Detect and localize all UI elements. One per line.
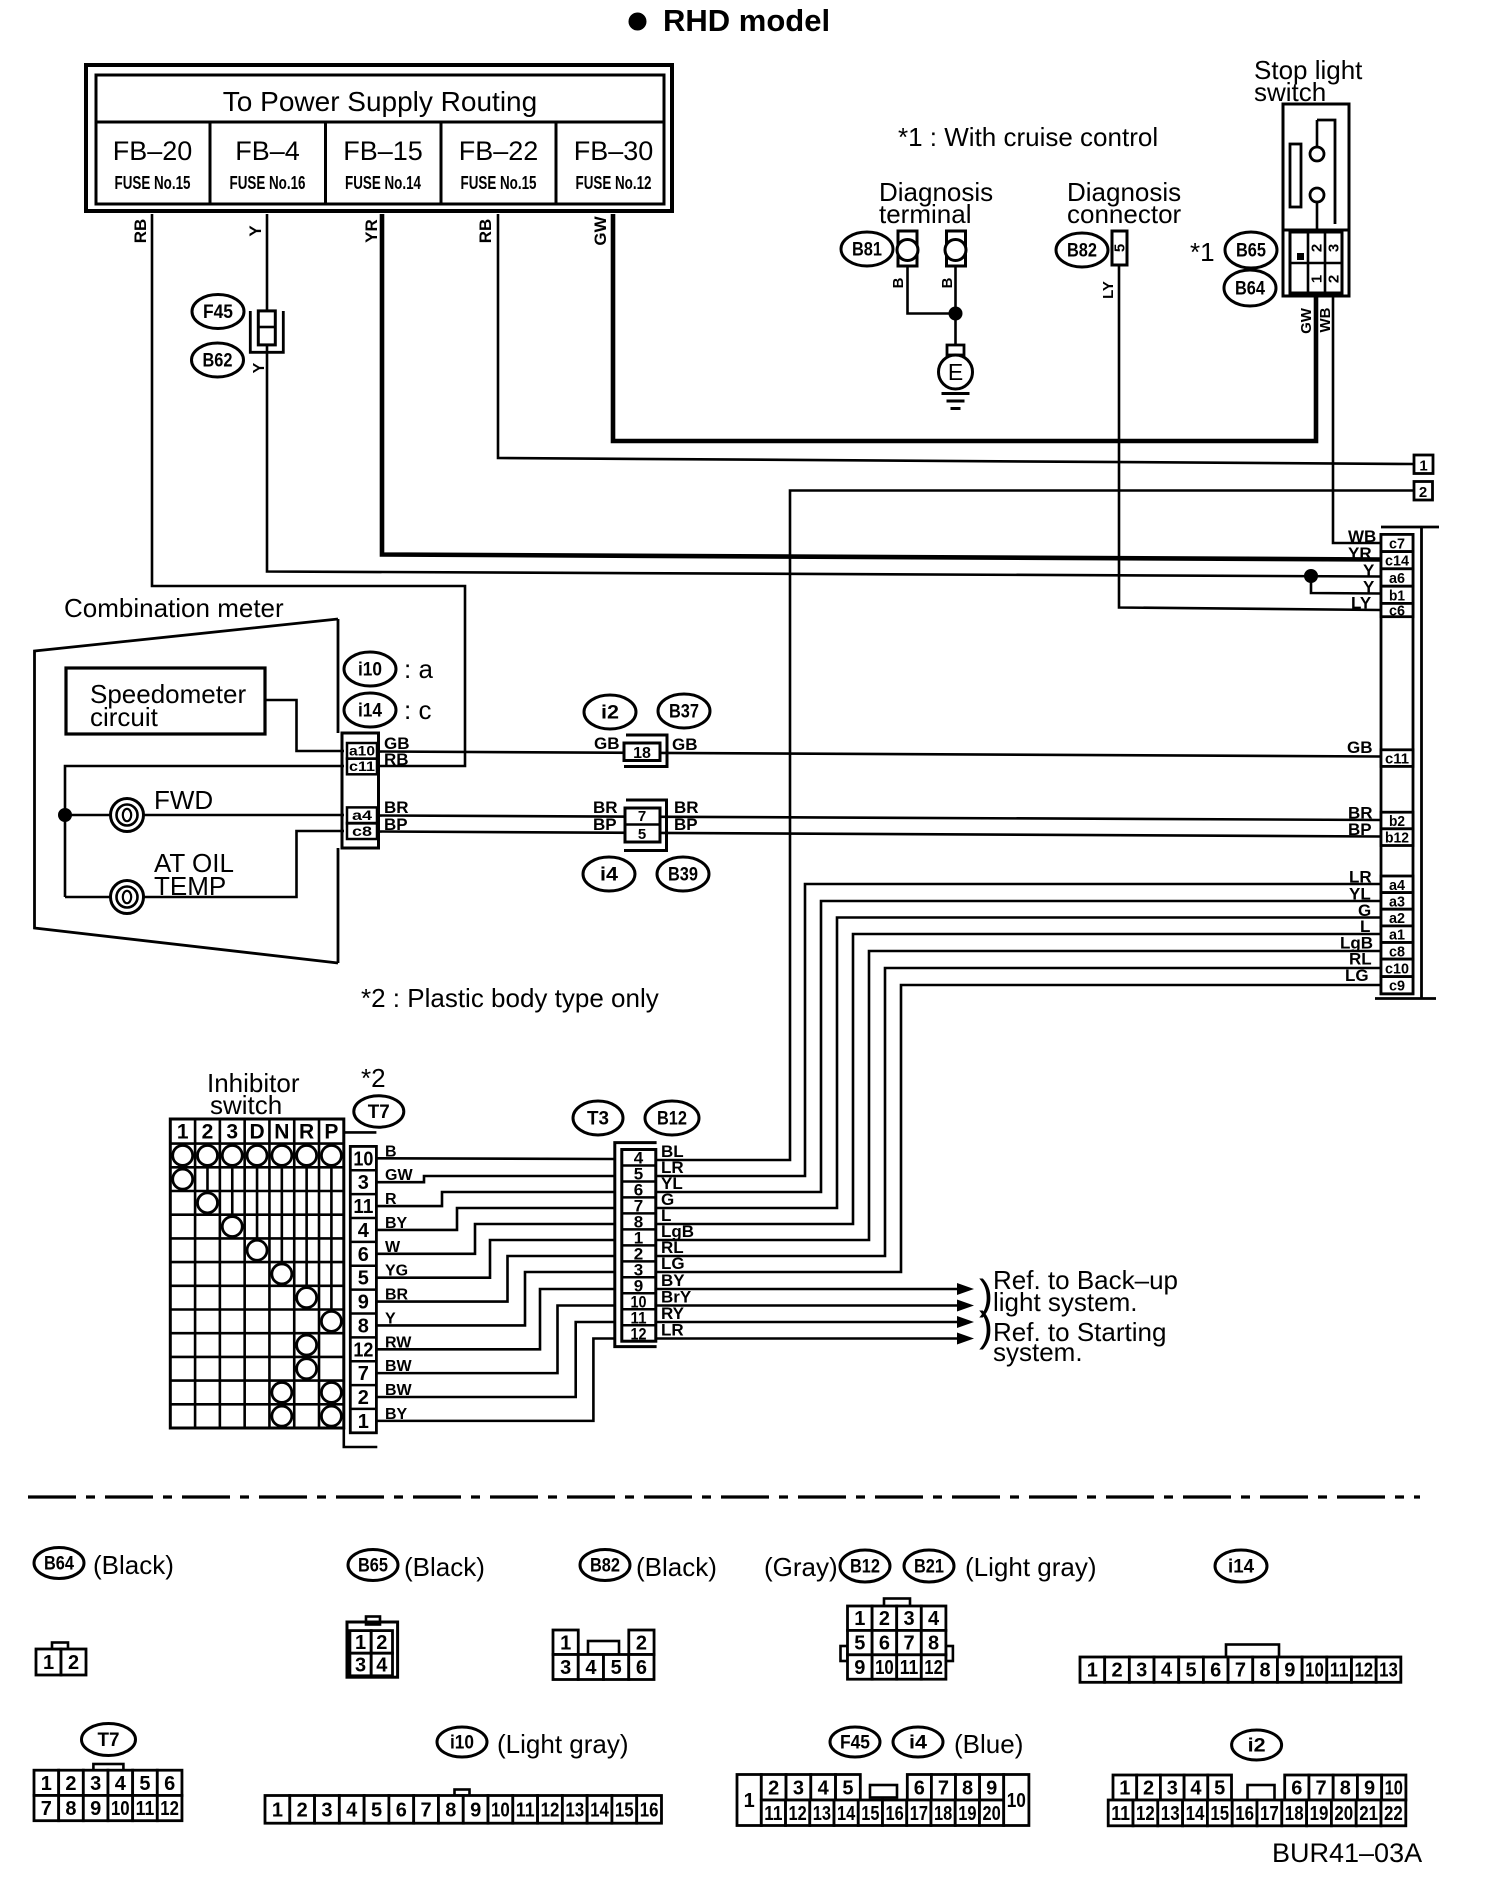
connector oval i4 (bottom) <box>893 1727 943 1757</box>
svg-text:Y: Y <box>251 362 268 373</box>
wire label LR <box>661 1158 684 1177</box>
svg-text:F45: F45 <box>203 302 233 323</box>
wire inhibitor pin 11 to T3/B12 <box>376 1192 614 1206</box>
svg-text:6: 6 <box>1210 1660 1221 1682</box>
label (Light gray) <box>965 1552 1097 1582</box>
svg-text:c6: c6 <box>1389 603 1405 620</box>
svg-text:(Gray): (Gray) <box>764 1552 838 1582</box>
svg-text:a6: a6 <box>1389 570 1405 587</box>
svg-text:16: 16 <box>886 1803 904 1825</box>
svg-text:3: 3 <box>1167 1778 1178 1800</box>
svg-text:FUSE No.12: FUSE No.12 <box>576 173 652 193</box>
svg-text:13: 13 <box>813 1803 831 1825</box>
svg-text:12: 12 <box>1354 1660 1373 1682</box>
svg-text:6: 6 <box>879 1633 890 1655</box>
power supply routing box <box>86 65 672 211</box>
svg-text:10: 10 <box>353 1148 373 1170</box>
svg-text:R: R <box>299 1121 314 1144</box>
diagnosis connector pin 5 <box>1112 231 1129 265</box>
svg-text:2: 2 <box>202 1121 214 1144</box>
svg-text:B82: B82 <box>1067 241 1097 262</box>
svg-text:5: 5 <box>842 1777 853 1799</box>
svg-text:GB: GB <box>594 734 620 753</box>
svg-text:FUSE No.15: FUSE No.15 <box>115 173 191 193</box>
wire label LgB <box>661 1222 694 1241</box>
wire label Y below fusible link <box>251 362 268 373</box>
svg-text:c14: c14 <box>1385 553 1410 570</box>
wire label Y <box>385 1310 396 1327</box>
wire label BP right <box>674 815 698 834</box>
svg-text:c9: c9 <box>1389 978 1405 995</box>
wire label WB <box>1348 527 1376 546</box>
svg-text:WB: WB <box>1317 307 1334 332</box>
svg-text:2: 2 <box>1309 244 1326 252</box>
svg-text:B12: B12 <box>657 1109 687 1130</box>
svg-text:LR: LR <box>661 1321 684 1340</box>
connector oval T3 <box>573 1101 623 1135</box>
connector pins 7/5 box <box>624 800 667 851</box>
svg-text:10: 10 <box>1007 1790 1026 1812</box>
svg-text:1: 1 <box>355 1632 366 1654</box>
wire inhibitor pin 1 to T3/B12 <box>376 1339 614 1421</box>
wire label LY <box>1351 594 1372 613</box>
svg-text:12: 12 <box>353 1339 373 1361</box>
connector oval T7 (bottom) <box>82 1724 136 1756</box>
speedometer circuit box <box>66 668 265 734</box>
connector oval i2 (bottom) <box>1232 1730 1282 1760</box>
svg-text:2: 2 <box>1326 275 1343 283</box>
wire B12 pin 5 to strip <box>656 884 1381 1176</box>
separator dashed line <box>28 1495 1420 1498</box>
svg-text:17: 17 <box>1260 1803 1279 1825</box>
svg-text:1: 1 <box>41 1773 52 1795</box>
svg-text:2: 2 <box>358 1387 369 1409</box>
svg-text:2: 2 <box>68 1652 79 1674</box>
svg-text:1: 1 <box>272 1799 283 1821</box>
svg-text:T3: T3 <box>587 1109 609 1130</box>
svg-text:10: 10 <box>875 1657 894 1679</box>
svg-text:4: 4 <box>346 1799 358 1821</box>
label stop light switch <box>1254 55 1363 107</box>
svg-text:15: 15 <box>1210 1803 1229 1825</box>
inhibitor pin strip T7 <box>350 1146 376 1432</box>
wire label GB <box>1347 738 1373 757</box>
svg-text:1: 1 <box>1119 1778 1130 1800</box>
wire label BrY <box>661 1288 692 1307</box>
svg-text:18: 18 <box>934 1803 952 1825</box>
svg-text:2: 2 <box>636 1632 647 1654</box>
wire label BY <box>385 1215 408 1232</box>
wire YR from FB-15 to c14 (thick) <box>382 214 1381 560</box>
wire label RB <box>131 219 150 244</box>
svg-text:22: 22 <box>1384 1803 1403 1825</box>
connector oval B64 <box>1224 270 1276 306</box>
wire label RY <box>661 1304 685 1323</box>
svg-text:B12: B12 <box>850 1557 880 1578</box>
svg-text:11: 11 <box>516 1799 535 1821</box>
svg-text:BP: BP <box>674 815 698 834</box>
wire label BP left <box>593 815 617 834</box>
label (Gray) <box>764 1552 838 1582</box>
svg-text:20: 20 <box>982 1803 1000 1825</box>
wire to node 2 <box>656 491 1414 1161</box>
wire label GW <box>1298 307 1315 334</box>
connector oval B39 <box>657 857 709 891</box>
svg-text:3: 3 <box>1326 244 1343 252</box>
svg-text:T7: T7 <box>98 1730 120 1751</box>
wire label B <box>939 277 956 288</box>
fuse cell FB-30 <box>556 122 653 204</box>
wire label YG <box>385 1263 408 1280</box>
fuse cell FB-22 <box>441 122 538 204</box>
fuse cell FB-20 <box>113 136 193 193</box>
wire label BP <box>384 815 408 834</box>
wire B12 pin 12 to ref arrow <box>656 1333 974 1345</box>
svg-text:6: 6 <box>396 1799 407 1821</box>
wire label W <box>385 1239 401 1256</box>
wire label YL <box>661 1174 683 1193</box>
wire inhibitor pin 9 to T3/B12 <box>376 1256 614 1302</box>
svg-text:13: 13 <box>1379 1660 1398 1682</box>
svg-text:3: 3 <box>560 1657 571 1679</box>
inhibitor switch grid <box>170 1119 343 1428</box>
label combination meter <box>64 593 284 623</box>
connector oval T7 <box>354 1096 404 1127</box>
connector oval F45 <box>192 295 244 329</box>
svg-text:(Black): (Black) <box>404 1552 485 1582</box>
svg-text:15: 15 <box>861 1803 879 1825</box>
svg-text:RHD model: RHD model <box>663 3 830 38</box>
wire RB from FB-22 to node 1 <box>498 214 1414 464</box>
svg-text:6: 6 <box>914 1777 925 1799</box>
connector oval i10 (bottom) <box>437 1727 487 1757</box>
wire inhibitor pin 12 to T3/B12 <box>376 1289 614 1349</box>
svg-text:5: 5 <box>1112 244 1129 252</box>
connector oval B12 <box>645 1101 699 1135</box>
connector oval B12 (bottom) <box>840 1550 890 1582</box>
svg-text:11: 11 <box>900 1657 919 1679</box>
diagnosis terminal pin 2 <box>945 231 966 266</box>
connector oval i4 <box>583 857 635 891</box>
svg-text:6: 6 <box>1291 1778 1302 1800</box>
svg-text:1: 1 <box>854 1608 865 1630</box>
svg-text:circuit: circuit <box>90 702 159 732</box>
stop light switch connector pins <box>1290 232 1343 293</box>
wire label YR <box>362 219 381 243</box>
wire label LR <box>661 1321 684 1340</box>
svg-text:2: 2 <box>65 1773 76 1795</box>
svg-text:2: 2 <box>1143 1778 1154 1800</box>
svg-text:RB: RB <box>131 219 150 244</box>
label BUR41-03A <box>1272 1838 1422 1868</box>
wire label G <box>1358 901 1371 920</box>
wire B12 pin 10 to ref arrow <box>656 1300 974 1312</box>
svg-text:5: 5 <box>638 826 646 843</box>
svg-text:a2: a2 <box>1389 910 1405 927</box>
svg-text:7: 7 <box>938 1777 949 1799</box>
svg-text:FUSE No.14: FUSE No.14 <box>345 173 421 193</box>
wire B12 pin 3 to strip <box>656 985 1381 1272</box>
svg-text:To Power Supply Routing: To Power Supply Routing <box>223 86 537 117</box>
svg-text:8: 8 <box>1340 1778 1351 1800</box>
svg-text:c8: c8 <box>352 823 372 839</box>
svg-text:10: 10 <box>1385 1778 1403 1800</box>
svg-text:2: 2 <box>1419 484 1427 501</box>
svg-text:LY: LY <box>1100 281 1117 299</box>
wire label GB <box>384 734 410 753</box>
label diagnosis connector <box>1067 177 1182 229</box>
svg-text:8: 8 <box>928 1633 939 1655</box>
svg-text:1: 1 <box>1309 275 1326 283</box>
wire label BY <box>661 1271 685 1290</box>
svg-text:4: 4 <box>376 1655 388 1677</box>
svg-text:1: 1 <box>177 1121 189 1144</box>
svg-text:13: 13 <box>565 1799 584 1821</box>
wire label BR right <box>674 798 699 817</box>
svg-text:FUSE No.16: FUSE No.16 <box>230 173 306 193</box>
svg-text:19: 19 <box>958 1803 976 1825</box>
connector oval B65 <box>1225 232 1277 268</box>
svg-text:19: 19 <box>1310 1803 1329 1825</box>
svg-text:20: 20 <box>1334 1803 1353 1825</box>
svg-text:8: 8 <box>1260 1660 1271 1682</box>
wire label BR <box>384 798 409 817</box>
connector oval B62 <box>192 343 244 377</box>
connector oval B82 (bottom) <box>580 1550 630 1581</box>
svg-text:3: 3 <box>355 1655 366 1677</box>
wire label R <box>385 1191 397 1208</box>
svg-text:): ) <box>979 1303 993 1350</box>
connector pinout B82 <box>553 1630 654 1680</box>
stop light switch box <box>1283 104 1349 296</box>
svg-text:i2: i2 <box>601 703 619 724</box>
svg-text:(Black): (Black) <box>93 1550 174 1580</box>
wire label BW <box>385 1358 413 1375</box>
svg-text:7: 7 <box>41 1798 52 1820</box>
svg-text:12: 12 <box>541 1799 560 1821</box>
svg-text:14: 14 <box>837 1803 856 1825</box>
fuse cell FB-15 <box>326 122 423 204</box>
connector pinout i10 <box>265 1790 661 1824</box>
connector pinout i2 <box>1108 1775 1406 1826</box>
svg-text:1: 1 <box>43 1652 54 1674</box>
svg-text:FB–22: FB–22 <box>459 136 539 166</box>
wire label RL <box>1349 950 1372 969</box>
svg-text:4: 4 <box>1190 1778 1202 1800</box>
wire GB row <box>379 752 1382 757</box>
svg-text:i14: i14 <box>1228 1557 1254 1578</box>
svg-text:FWD: FWD <box>154 785 213 815</box>
wire label RL <box>661 1238 684 1257</box>
svg-text:9: 9 <box>1284 1660 1295 1682</box>
wire label BR <box>385 1287 409 1304</box>
svg-text:: a: : a <box>404 654 433 684</box>
svg-text:10: 10 <box>111 1798 130 1820</box>
label diagnosis terminal <box>879 177 993 229</box>
wire label Y <box>1363 561 1375 580</box>
svg-text:c11: c11 <box>349 758 375 774</box>
svg-text:(Light gray): (Light gray) <box>965 1552 1097 1582</box>
wire inhibitor pin 8 to T3/B12 <box>376 1272 614 1325</box>
note *2 marker <box>361 1063 386 1093</box>
svg-text:RB: RB <box>476 219 495 244</box>
svg-text:T7: T7 <box>368 1102 390 1123</box>
wire GW from FB-30 to stop light switch (thick) <box>613 214 1316 441</box>
wire RB from FB-20 to combination meter c11 <box>152 214 465 766</box>
label (Light gray) <box>497 1729 629 1759</box>
svg-text:i4: i4 <box>600 865 618 886</box>
wire label B <box>890 277 907 288</box>
wire label Y <box>246 225 265 237</box>
label (Black) <box>636 1552 717 1582</box>
svg-text:8: 8 <box>445 1799 456 1821</box>
svg-text:11: 11 <box>136 1798 155 1820</box>
svg-text:B37: B37 <box>669 702 699 723</box>
gauge FWD <box>111 785 214 832</box>
svg-text:FB–15: FB–15 <box>343 136 423 166</box>
wire label G <box>661 1190 674 1209</box>
svg-text:12: 12 <box>924 1657 943 1679</box>
svg-text:11: 11 <box>1330 1660 1349 1682</box>
label ref to back-up light system <box>979 1265 1178 1318</box>
connector pinout B65 <box>347 1617 398 1678</box>
node dot FWD branch <box>60 810 71 821</box>
svg-text:18: 18 <box>633 745 651 762</box>
svg-text:11: 11 <box>1111 1803 1130 1825</box>
svg-text:12: 12 <box>160 1798 179 1820</box>
wire FWD row <box>65 814 344 817</box>
wire label B <box>385 1143 397 1160</box>
wire label BR left <box>593 798 618 817</box>
wire diagnosis terminal to ground <box>908 266 956 345</box>
note *1 with cruise control <box>898 122 1158 152</box>
svg-text:B: B <box>890 277 907 288</box>
svg-text:2: 2 <box>768 1777 779 1799</box>
wire label L <box>661 1206 671 1225</box>
connector pinout B64 <box>36 1643 86 1676</box>
svg-text:13: 13 <box>1161 1803 1180 1825</box>
connector oval B81 <box>841 232 893 266</box>
svg-text:1: 1 <box>744 1790 755 1812</box>
wire label RW <box>385 1334 412 1351</box>
wire label RB <box>476 219 495 244</box>
svg-text:9: 9 <box>986 1777 997 1799</box>
node 2 box <box>1414 482 1433 502</box>
wire label GW <box>591 215 610 245</box>
inhibitor connector bracket lines <box>344 1132 378 1447</box>
wire label GB right <box>672 735 698 754</box>
connector oval i2 <box>584 695 636 729</box>
wire label LgB <box>1340 934 1373 953</box>
svg-text:3: 3 <box>321 1799 332 1821</box>
svg-text:*1 : With cruise control: *1 : With cruise control <box>898 122 1158 152</box>
wire inhibitor pin 5 to T3/B12 <box>376 1240 614 1278</box>
wire label LG <box>661 1254 685 1273</box>
connector pinout F45/i4 <box>737 1775 1029 1826</box>
svg-text:a10: a10 <box>349 743 375 759</box>
svg-text:7: 7 <box>358 1363 369 1385</box>
svg-text:4: 4 <box>585 1657 597 1679</box>
label ref to starting system <box>979 1303 1166 1367</box>
svg-text:18: 18 <box>1285 1803 1304 1825</box>
svg-text:5: 5 <box>139 1773 150 1795</box>
combination meter connector i10/i14 <box>342 733 379 848</box>
svg-text:GW: GW <box>591 215 610 245</box>
svg-text:BUR41–03A: BUR41–03A <box>1272 1838 1422 1868</box>
svg-text:3: 3 <box>793 1777 804 1799</box>
svg-text:12: 12 <box>1136 1803 1155 1825</box>
svg-text:LY: LY <box>1351 594 1372 613</box>
label (Black) <box>404 1552 485 1582</box>
svg-text:5: 5 <box>358 1268 369 1290</box>
svg-text:15: 15 <box>615 1799 634 1821</box>
svg-text:B65: B65 <box>1236 241 1266 262</box>
svg-text:4: 4 <box>358 1220 370 1242</box>
connector oval F45 (bottom) <box>830 1727 880 1757</box>
svg-text:c7: c7 <box>1389 536 1405 553</box>
svg-text:E: E <box>948 359 963 385</box>
svg-text:7: 7 <box>903 1633 914 1655</box>
svg-text:8: 8 <box>962 1777 973 1799</box>
svg-text:2: 2 <box>297 1799 308 1821</box>
svg-text:3: 3 <box>226 1121 238 1144</box>
svg-text:FB–30: FB–30 <box>574 136 654 166</box>
svg-text:B64: B64 <box>44 1554 74 1575</box>
svg-text:9: 9 <box>358 1292 369 1314</box>
connector oval B64 (bottom) <box>34 1548 84 1579</box>
svg-text:B64: B64 <box>1235 279 1265 300</box>
gauge AT OIL TEMP <box>111 848 234 914</box>
svg-text:3: 3 <box>1136 1660 1147 1682</box>
svg-text:4: 4 <box>928 1608 940 1630</box>
wire label Y <box>1363 578 1375 597</box>
wire B12 pin 8 to strip <box>656 934 1381 1224</box>
svg-text:1: 1 <box>560 1632 571 1654</box>
label (Black) <box>93 1550 174 1580</box>
svg-text:4: 4 <box>818 1777 830 1799</box>
wire B12 pin 11 to ref arrow <box>656 1316 974 1328</box>
svg-text:3: 3 <box>903 1608 914 1630</box>
connector pin 18 box <box>624 735 667 767</box>
svg-text:(Black): (Black) <box>636 1552 717 1582</box>
svg-text:: c: : c <box>404 695 431 725</box>
wire label GB left <box>594 734 620 753</box>
svg-text:14: 14 <box>1186 1803 1206 1825</box>
svg-text:1: 1 <box>1419 458 1427 475</box>
label : a <box>404 654 433 684</box>
wire BR row <box>379 816 1382 821</box>
wire RB bus inside meter <box>65 766 344 897</box>
title bullet <box>629 13 647 31</box>
svg-text:5: 5 <box>371 1799 382 1821</box>
svg-text:9: 9 <box>1364 1778 1375 1800</box>
svg-text:i10: i10 <box>358 660 382 681</box>
svg-text:10: 10 <box>1305 1660 1324 1682</box>
svg-text:FB–20: FB–20 <box>113 136 193 166</box>
svg-text:9: 9 <box>470 1799 481 1821</box>
svg-text:connector: connector <box>1067 199 1182 229</box>
wire label BL <box>661 1142 684 1161</box>
svg-text:5: 5 <box>1214 1778 1225 1800</box>
svg-text:2: 2 <box>1111 1660 1122 1682</box>
connector oval i14 (bottom) <box>1215 1550 1267 1582</box>
svg-text:2: 2 <box>376 1632 387 1654</box>
label : c <box>404 695 431 725</box>
svg-text:11: 11 <box>764 1803 782 1825</box>
svg-text:17: 17 <box>910 1803 928 1825</box>
svg-text:i10: i10 <box>450 1733 474 1754</box>
svg-text:system.: system. <box>993 1337 1083 1367</box>
